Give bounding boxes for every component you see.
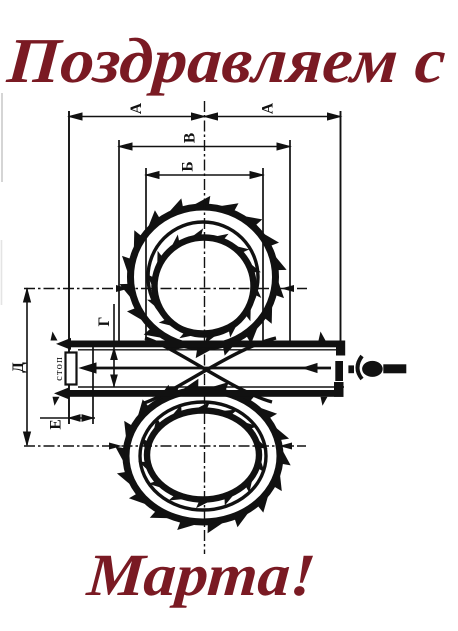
strip crossing curve 1 bbox=[144, 338, 276, 403]
dimension Г line bbox=[111, 304, 117, 387]
centre line lower horizontal bbox=[24, 445, 306, 447]
strip top edge thin line bbox=[78, 349, 344, 351]
strip crossing curve 2 bbox=[145, 338, 272, 402]
svg-text:Е: Е bbox=[48, 419, 65, 429]
stop block bbox=[66, 353, 77, 385]
pusher plate bbox=[335, 361, 343, 381]
dimension A line bbox=[69, 113, 341, 120]
dimension Б line bbox=[146, 172, 263, 179]
barb under bottom bar left bbox=[53, 397, 60, 406]
svg-text:Г: Г bbox=[96, 316, 113, 326]
lower roll inner ring bbox=[138, 402, 267, 509]
svg-text:Б: Б bbox=[180, 161, 197, 171]
svg-text:Поздравляем с: Поздравляем с bbox=[4, 25, 448, 96]
extension lines bbox=[69, 111, 341, 424]
pusher handle bbox=[383, 364, 406, 373]
svg-text:А: А bbox=[128, 102, 145, 114]
feed arrow bbox=[80, 363, 331, 373]
pusher spring arc bbox=[358, 356, 363, 379]
strip loop upper bbox=[148, 222, 258, 332]
dimension Е line bbox=[40, 415, 95, 421]
flow arrow on upper crossing bbox=[163, 339, 176, 347]
svg-text:А: А bbox=[260, 102, 277, 114]
svg-text:Д: Д bbox=[10, 362, 27, 373]
flow arrow on lower crossing bbox=[166, 387, 179, 395]
dimension B line bbox=[119, 143, 290, 150]
lower roll outer ring bbox=[115, 379, 290, 534]
barb on top bar right bbox=[319, 332, 326, 341]
strip bottom edge thin line bbox=[78, 386, 344, 388]
svg-text:В: В bbox=[182, 133, 199, 143]
centre line vertical bbox=[204, 101, 206, 554]
upper roll outer ring bbox=[119, 196, 286, 358]
barb under bottom bar right bbox=[321, 397, 328, 406]
pusher pin bbox=[348, 365, 354, 373]
svg-text:стоп: стоп bbox=[54, 356, 65, 381]
upper roll inner ring bbox=[147, 228, 262, 343]
strip loop lower bbox=[140, 402, 266, 510]
svg-text:Марта!: Марта! bbox=[84, 541, 318, 608]
dimension Д line bbox=[24, 289, 31, 445]
barb on top bar left bbox=[51, 332, 58, 341]
bottom guide bar bbox=[54, 382, 344, 399]
top guide bar bbox=[56, 338, 345, 356]
centre line upper horizontal bbox=[24, 288, 307, 290]
pusher knob bbox=[362, 361, 383, 377]
